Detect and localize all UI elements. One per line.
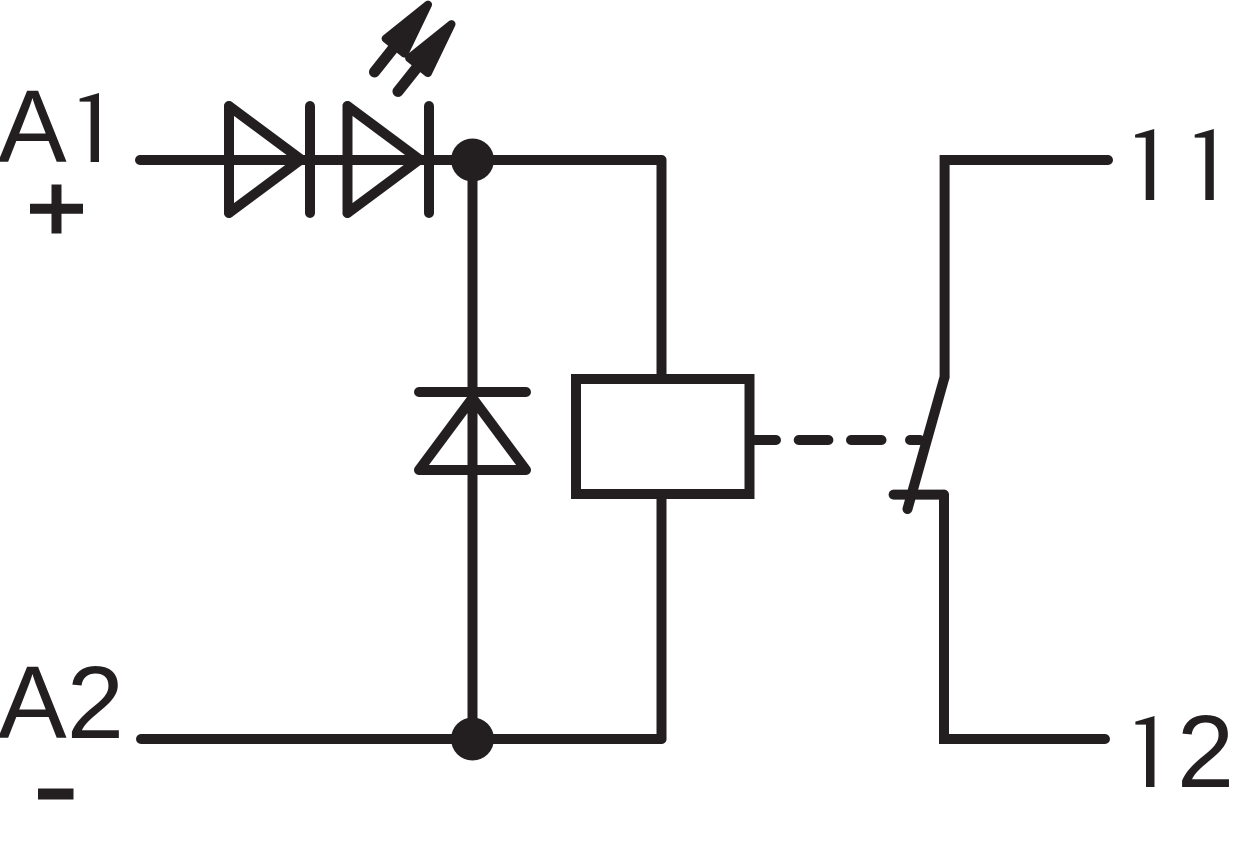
terminal label 11 [1135, 129, 1214, 200]
svg-text:A: A [0, 69, 67, 184]
contact movable arm [908, 377, 945, 509]
diode V1 [229, 106, 310, 213]
wire A2 horizontal [141, 734, 662, 744]
node junction bottom [451, 718, 494, 761]
mechanical link dashed [754, 435, 920, 445]
svg-text:2: 2 [1177, 694, 1234, 809]
LED V2 [348, 106, 430, 213]
node junction top [451, 139, 494, 182]
terminal label A1 [0, 69, 99, 184]
wire coil bottom vertical [657, 494, 667, 739]
svg-text:A2: A2 [0, 645, 124, 760]
wire right branch vertical down to coil [657, 160, 667, 374]
wire terminal 12 lead [944, 495, 1105, 739]
wire A1 horizontal to corner [140, 155, 662, 165]
contact fixed stub [894, 490, 944, 500]
wire terminal 11 lead [945, 160, 1108, 377]
diode V3 freewheel cathode bar [419, 387, 526, 397]
polarity plus sign [30, 185, 83, 234]
polarity minus sign [38, 789, 74, 800]
relay coil K1 [576, 379, 750, 494]
terminal label 12 [1135, 694, 1234, 809]
wire suppressor branch vertical [468, 160, 478, 739]
LED light emission arrows [365, 0, 461, 99]
diode V3 freewheel triangle [419, 398, 526, 470]
